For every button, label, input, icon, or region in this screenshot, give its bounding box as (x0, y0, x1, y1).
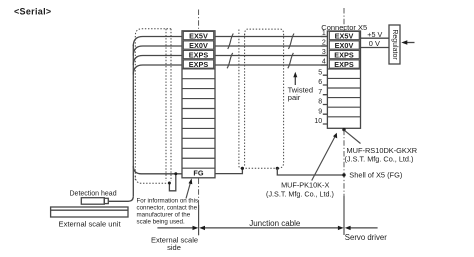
node drain shield (168, 182, 171, 185)
svg-text:4: 4 (322, 59, 326, 66)
junction cable shield box (245, 29, 284, 35)
svg-text:(J.S.T. Mfg. Co., Ltd.): (J.S.T. Mfg. Co., Ltd.) (345, 155, 414, 164)
svg-text:pair: pair (288, 93, 301, 102)
svg-text:EX5V: EX5V (335, 32, 354, 41)
external scale unit (51, 207, 128, 217)
twist mark pair1 right (288, 34, 294, 49)
svg-text:For information on this: For information on this (137, 197, 199, 204)
svg-text:EX0V: EX0V (335, 41, 354, 50)
arrow junction cable (204, 227, 340, 229)
centerline above external scale connector (198, 10, 200, 31)
wire 4 to X5 (215, 64, 327, 66)
centerline above connector X5 (343, 8, 345, 31)
arrow servo driver (350, 227, 378, 229)
svg-text:Shell of X5 (FG): Shell of X5 (FG) (349, 171, 402, 180)
wire FG to junction (215, 168, 242, 173)
svg-text:EX5V: EX5V (189, 32, 208, 41)
svg-text:EXPS: EXPS (189, 51, 209, 60)
svg-text:+5 V: +5 V (367, 30, 382, 39)
svg-text:EXPS: EXPS (189, 60, 209, 69)
svg-text:EXPS: EXPS (334, 60, 354, 69)
svg-text:MUF-RS10DK-GKXR: MUF-RS10DK-GKXR (347, 146, 418, 155)
wire 2 to X5 (215, 45, 327, 47)
svg-text:9: 9 (318, 108, 322, 115)
svg-text:connector, contact the: connector, contact the (137, 204, 198, 211)
connector X5 body (327, 31, 360, 128)
shell centerline (343, 130, 345, 196)
note leader arrow (186, 181, 191, 199)
node shield left (241, 167, 244, 170)
node X5 shell top (342, 128, 345, 131)
node shield right (276, 167, 279, 170)
junction cable shield outer left edge (239, 30, 241, 169)
svg-text:0 V: 0 V (369, 39, 380, 48)
cable bundle vertical (132, 45, 134, 197)
wire shield to shell (277, 168, 344, 175)
external scale connector body (182, 31, 215, 178)
shield left cable bottom run to drain (135, 176, 169, 183)
svg-text:Servo driver: Servo driver (345, 233, 387, 242)
svg-text:7: 7 (318, 89, 322, 96)
svg-text:6: 6 (318, 79, 322, 86)
svg-text:<Serial>: <Serial> (14, 7, 51, 17)
twist mark pair2 left (227, 53, 233, 68)
svg-text:MUF-PK10K-X: MUF-PK10K-X (281, 181, 329, 190)
arrow external scale side (157, 227, 194, 229)
wire 0V (361, 47, 390, 49)
wire detection head (108, 196, 133, 201)
svg-text:2: 2 (322, 40, 326, 47)
wire EX5V left (133, 37, 182, 47)
wire 1 to X5 (215, 36, 327, 38)
twist mark pair2 right (288, 53, 294, 68)
arrow into regulator (405, 42, 415, 44)
leader MUF-PK10K arrow (312, 136, 336, 181)
svg-text:Junction cable: Junction cable (249, 219, 301, 228)
shield box left cable inner right edge (165, 29, 167, 181)
pin stubs X5 (321, 37, 328, 125)
shield box left cable outer right edge (170, 29, 172, 181)
wire +5V (361, 37, 390, 39)
boundary centerline left (198, 179, 200, 206)
svg-text:3: 3 (322, 49, 326, 56)
twisted pair arrow (294, 77, 296, 86)
svg-text:Detection head: Detection head (70, 190, 117, 197)
regulator U1 (389, 25, 400, 64)
node drain FG (174, 172, 177, 175)
wire EXPS2 left (133, 65, 182, 75)
wire 3 to X5 (215, 55, 327, 57)
wire FG branch (133, 166, 182, 174)
shield bottom run (242, 167, 277, 169)
detection head (81, 198, 104, 205)
leader MUF-RS10DK (345, 131, 361, 144)
wire EX0V left (133, 46, 182, 56)
drain hook to FG wire (169, 174, 175, 191)
svg-text:FG: FG (193, 169, 203, 178)
svg-text:8: 8 (318, 99, 322, 106)
node shell of X5 (342, 173, 345, 176)
svg-text:side: side (167, 243, 181, 252)
svg-text:(J.S.T. Mfg. Co., Ltd.): (J.S.T. Mfg. Co., Ltd.) (266, 189, 334, 198)
wire EXPS left (133, 56, 182, 66)
svg-text:External scale unit: External scale unit (59, 220, 122, 229)
svg-text:Regulator: Regulator (391, 29, 398, 60)
svg-text:5: 5 (318, 69, 322, 76)
twist mark pair1 left (228, 34, 234, 49)
svg-text:manufacturer of the: manufacturer of the (137, 212, 191, 219)
svg-text:scale being used.: scale being used. (137, 219, 185, 226)
shield box left cable (dashed) (135, 29, 171, 180)
svg-text:EX0V: EX0V (189, 41, 208, 50)
svg-text:10: 10 (314, 118, 322, 125)
svg-text:1: 1 (322, 30, 326, 37)
svg-text:EXPS: EXPS (334, 51, 354, 60)
